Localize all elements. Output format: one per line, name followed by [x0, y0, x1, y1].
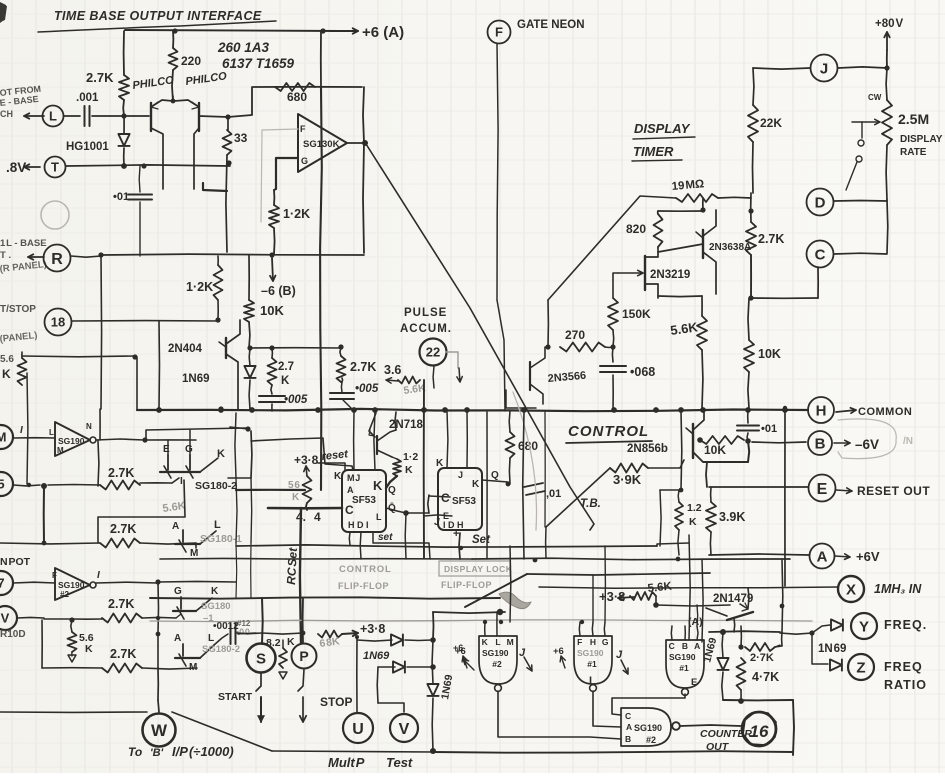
svg-text:D: D: [815, 194, 826, 211]
svg-text:220: 220: [181, 54, 201, 68]
svg-text:set: set: [378, 532, 393, 543]
svg-text:10K: 10K: [260, 303, 284, 318]
svg-text:I/P (÷1000): I/P (÷1000): [172, 744, 234, 759]
svg-text:#2: #2: [492, 659, 502, 669]
svg-text:#2: #2: [646, 735, 656, 745]
svg-text:K: K: [85, 643, 93, 655]
svg-text:X: X: [846, 581, 856, 598]
svg-text:SF53: SF53: [452, 496, 476, 507]
svg-text:K: K: [689, 516, 697, 528]
svg-text:DISPLAY: DISPLAY: [634, 121, 691, 136]
svg-text:H: H: [590, 637, 596, 647]
svg-text:Q: Q: [491, 470, 499, 481]
svg-text:N: N: [86, 422, 92, 431]
svg-text:RATIO: RATIO: [884, 678, 927, 692]
svg-text:•005: •005: [284, 394, 308, 406]
svg-text:K: K: [211, 586, 219, 597]
svg-text:•005: •005: [355, 383, 379, 395]
svg-text:M: M: [0, 430, 6, 445]
svg-text:2.7K: 2.7K: [108, 597, 134, 611]
svg-text:K: K: [217, 448, 225, 460]
svg-text:To: To: [128, 745, 142, 759]
svg-text:RESET OUT: RESET OUT: [857, 484, 930, 498]
svg-text:GATE NEON: GATE NEON: [517, 19, 585, 31]
svg-text:33: 33: [234, 131, 248, 145]
svg-text:SG180: SG180: [201, 601, 231, 612]
svg-text:1·2: 1·2: [403, 451, 418, 463]
svg-text:2.7K: 2.7K: [86, 70, 114, 85]
svg-text:+: +: [453, 528, 459, 540]
svg-text:G: G: [174, 586, 182, 597]
svg-text:T .: T .: [0, 250, 11, 261]
svg-text:4: 4: [314, 510, 321, 524]
svg-text:Test: Test: [386, 755, 413, 770]
svg-text:Set: Set: [472, 534, 491, 546]
svg-text:/N: /N: [903, 436, 913, 447]
svg-text:G: G: [602, 637, 609, 647]
svg-text:K: K: [2, 367, 11, 381]
svg-text:.8V: .8V: [6, 160, 26, 175]
svg-text:•01: •01: [761, 423, 777, 435]
svg-text:T.B.: T.B.: [580, 498, 601, 510]
svg-text:L: L: [495, 637, 500, 647]
svg-text:P: P: [299, 648, 308, 664]
svg-text:V: V: [1, 611, 10, 626]
svg-text:M: M: [507, 637, 514, 647]
svg-text:I: I: [180, 476, 183, 487]
svg-text:•01: •01: [113, 191, 129, 203]
svg-text:#1: #1: [679, 663, 689, 673]
svg-text:V: V: [399, 721, 410, 738]
svg-text:•0012: •0012: [213, 621, 239, 632]
svg-text:270: 270: [565, 328, 585, 342]
svg-text:SG190: SG190: [669, 652, 696, 662]
svg-text:C: C: [669, 641, 675, 651]
svg-text:A: A: [817, 548, 828, 565]
svg-text:F: F: [300, 124, 306, 134]
svg-text:K: K: [334, 471, 342, 482]
svg-text:2.7: 2.7: [278, 361, 294, 373]
svg-text:3.6: 3.6: [384, 363, 401, 377]
svg-text:+3·8: +3·8: [294, 453, 319, 467]
svg-text:B: B: [625, 734, 631, 744]
svg-text:2.7K: 2.7K: [110, 522, 136, 536]
svg-text:7: 7: [0, 576, 5, 591]
svg-text:1·2K: 1·2K: [283, 207, 310, 221]
svg-text:DISPLAY LOCK: DISPLAY LOCK: [444, 564, 513, 574]
svg-text:E: E: [163, 444, 170, 455]
svg-text:260 1A3: 260 1A3: [217, 40, 270, 55]
svg-text:5: 5: [0, 477, 5, 492]
svg-text:2N1479: 2N1479: [713, 593, 753, 605]
svg-text:.001: .001: [76, 92, 99, 104]
svg-text:3·9K: 3·9K: [613, 472, 642, 487]
svg-text:I: I: [20, 425, 23, 436]
svg-text:F: F: [577, 637, 582, 647]
svg-text:K: K: [281, 375, 290, 387]
svg-text:A: A: [172, 521, 179, 532]
svg-text:S: S: [256, 650, 266, 667]
svg-text:#12: #12: [237, 619, 251, 628]
svg-text:M: M: [190, 548, 198, 559]
svg-text:STOP: STOP: [320, 695, 352, 709]
svg-text:2N856b: 2N856b: [627, 443, 668, 455]
svg-text:'B': 'B': [150, 747, 164, 759]
svg-text:22K: 22K: [760, 116, 782, 130]
svg-text:1N69: 1N69: [182, 373, 210, 385]
svg-text:+6: +6: [453, 643, 463, 653]
svg-text:Y: Y: [859, 618, 869, 635]
svg-text:L: L: [49, 109, 57, 124]
svg-text:5 6: 5 6: [288, 480, 300, 491]
svg-text:10K: 10K: [758, 347, 781, 361]
svg-text:I: I: [97, 570, 100, 581]
svg-text:J: J: [820, 60, 828, 77]
svg-text:SG190: SG190: [58, 436, 85, 446]
svg-text:W: W: [151, 721, 168, 740]
svg-text:16: 16: [750, 722, 769, 741]
svg-text:820: 820: [626, 222, 646, 236]
svg-text:+6: +6: [553, 646, 564, 657]
svg-text:PULSE: PULSE: [404, 307, 447, 319]
svg-text:5.6: 5.6: [0, 354, 14, 365]
svg-text:TIME BASE OUTPUT INTERFACE: TIME BASE OUTPUT INTERFACE: [54, 9, 262, 23]
svg-text:T/STOP: T/STOP: [0, 304, 36, 315]
svg-text:A: A: [626, 722, 632, 732]
svg-text:DISPLAY: DISPLAY: [900, 134, 943, 145]
svg-text:M: M: [189, 662, 197, 673]
svg-text:U: U: [352, 721, 364, 738]
svg-text:CW: CW: [868, 93, 882, 102]
svg-text:Q̄: Q̄: [388, 502, 396, 514]
svg-text:2.5M: 2.5M: [898, 111, 929, 127]
svg-text:E: E: [691, 677, 697, 688]
svg-text:SG190: SG190: [634, 723, 662, 733]
svg-text:FLIP-FLOP: FLIP-FLOP: [441, 580, 492, 590]
svg-text:ACCUM.: ACCUM.: [400, 323, 452, 335]
svg-text:G: G: [301, 156, 308, 166]
svg-text:L: L: [49, 428, 54, 437]
svg-text:,01: ,01: [546, 488, 561, 500]
svg-text:2.7K: 2.7K: [110, 647, 136, 661]
svg-text:FLIP-FLOP: FLIP-FLOP: [338, 581, 389, 591]
svg-text:N POT: N POT: [0, 556, 31, 568]
svg-text:L: L: [214, 519, 221, 531]
svg-text:4·7K: 4·7K: [752, 670, 779, 684]
svg-text:#1: #1: [587, 659, 597, 669]
svg-text:J: J: [458, 470, 463, 480]
svg-text:1N69: 1N69: [363, 650, 390, 662]
svg-text:18: 18: [51, 315, 65, 330]
svg-text:6137 T1659: 6137 T1659: [222, 56, 295, 71]
svg-text:CONTROL: CONTROL: [568, 423, 649, 440]
svg-text:K: K: [292, 492, 300, 503]
svg-text:R: R: [51, 251, 63, 268]
svg-text:+6 (A): +6 (A): [362, 24, 404, 41]
svg-text:2.7K: 2.7K: [108, 466, 134, 480]
svg-text:•068: •068: [630, 365, 655, 379]
svg-text:A: A: [694, 641, 700, 651]
svg-text:E: E: [817, 481, 828, 498]
svg-text:2.7K: 2.7K: [350, 360, 376, 374]
svg-text:1.2: 1.2: [687, 502, 702, 514]
svg-text:J: J: [434, 517, 440, 528]
svg-text:H: H: [816, 402, 827, 419]
svg-text:SF53: SF53: [352, 495, 376, 506]
svg-text:150K: 150K: [622, 307, 651, 321]
svg-text:680: 680: [287, 90, 307, 104]
svg-text:SG180-2: SG180-2: [195, 480, 237, 492]
svg-text:–6V: –6V: [855, 437, 879, 452]
svg-text:CH: CH: [0, 109, 13, 119]
svg-text:B: B: [682, 641, 688, 651]
svg-text:2·7K: 2·7K: [750, 652, 774, 664]
svg-text:+80 V: +80 V: [875, 18, 903, 30]
svg-text:A: A: [347, 485, 354, 495]
svg-text:K: K: [472, 479, 480, 490]
svg-text:SG190: SG190: [577, 648, 604, 658]
svg-text:+6V: +6V: [856, 549, 880, 564]
svg-text:I: I: [589, 675, 592, 687]
svg-text:–6 (B): –6 (B): [261, 284, 296, 298]
svg-text:C: C: [345, 503, 354, 517]
svg-text:2N3638A: 2N3638A: [709, 242, 751, 253]
svg-text:TIMER: TIMER: [633, 144, 674, 159]
svg-text:M J: M J: [347, 473, 360, 483]
svg-text:L: L: [208, 633, 214, 644]
svg-text:RATE: RATE: [900, 147, 927, 158]
svg-text:COMMON: COMMON: [858, 406, 912, 418]
svg-text:F: F: [495, 25, 503, 40]
svg-text:F: F: [52, 571, 57, 580]
svg-text:10K: 10K: [704, 443, 726, 457]
svg-text:Q: Q: [388, 485, 396, 496]
svg-text:L: L: [376, 512, 382, 522]
svg-text:T: T: [51, 160, 59, 175]
svg-text:FREQ.: FREQ.: [884, 618, 927, 632]
svg-text:Mult P: Mult P: [328, 755, 365, 770]
svg-text:C: C: [815, 246, 826, 263]
svg-text:B: B: [815, 435, 826, 452]
svg-text:FREQ: FREQ: [884, 660, 923, 674]
svg-text:K: K: [287, 636, 295, 648]
svg-text:K: K: [405, 464, 413, 476]
svg-text:SG190: SG190: [482, 648, 509, 658]
svg-text:22: 22: [426, 345, 440, 360]
svg-text:8.2: 8.2: [266, 637, 281, 649]
svg-text:SG180-2: SG180-2: [202, 644, 240, 655]
svg-text:K: K: [482, 637, 489, 647]
svg-text:C: C: [441, 491, 450, 505]
svg-text:2.7K: 2.7K: [758, 232, 784, 246]
svg-text:CONTROL: CONTROL: [339, 564, 392, 575]
svg-text:2N718: 2N718: [389, 419, 423, 431]
svg-text:HG1001: HG1001: [66, 141, 109, 153]
svg-text:A: A: [174, 633, 181, 644]
svg-text:M: M: [57, 446, 64, 455]
svg-text:1 L - BASE: 1 L - BASE: [0, 238, 47, 249]
svg-text:2N404: 2N404: [168, 343, 202, 355]
svg-text:SG190: SG190: [58, 580, 85, 590]
svg-text:1·2K: 1·2K: [186, 280, 213, 294]
svg-text:1MH₃ IN: 1MH₃ IN: [874, 582, 922, 596]
svg-text:3.9K: 3.9K: [719, 510, 745, 524]
svg-text:2N3219: 2N3219: [650, 269, 690, 281]
svg-text:K: K: [373, 478, 383, 493]
svg-text:H D I: H D I: [348, 520, 369, 530]
svg-text:1N 69: 1N 69: [818, 643, 846, 655]
svg-text:START: START: [218, 691, 253, 703]
svg-text:RC Set: RC Set: [284, 546, 300, 585]
svg-text:G: G: [185, 444, 193, 455]
svg-text:R10D: R10D: [0, 629, 26, 640]
svg-text:Z: Z: [856, 659, 865, 676]
svg-text:#2: #2: [60, 590, 69, 599]
svg-text:+3·8: +3·8: [360, 622, 385, 636]
svg-text:C: C: [625, 711, 631, 721]
svg-text:J: J: [616, 649, 623, 661]
svg-text:K: K: [436, 458, 444, 469]
